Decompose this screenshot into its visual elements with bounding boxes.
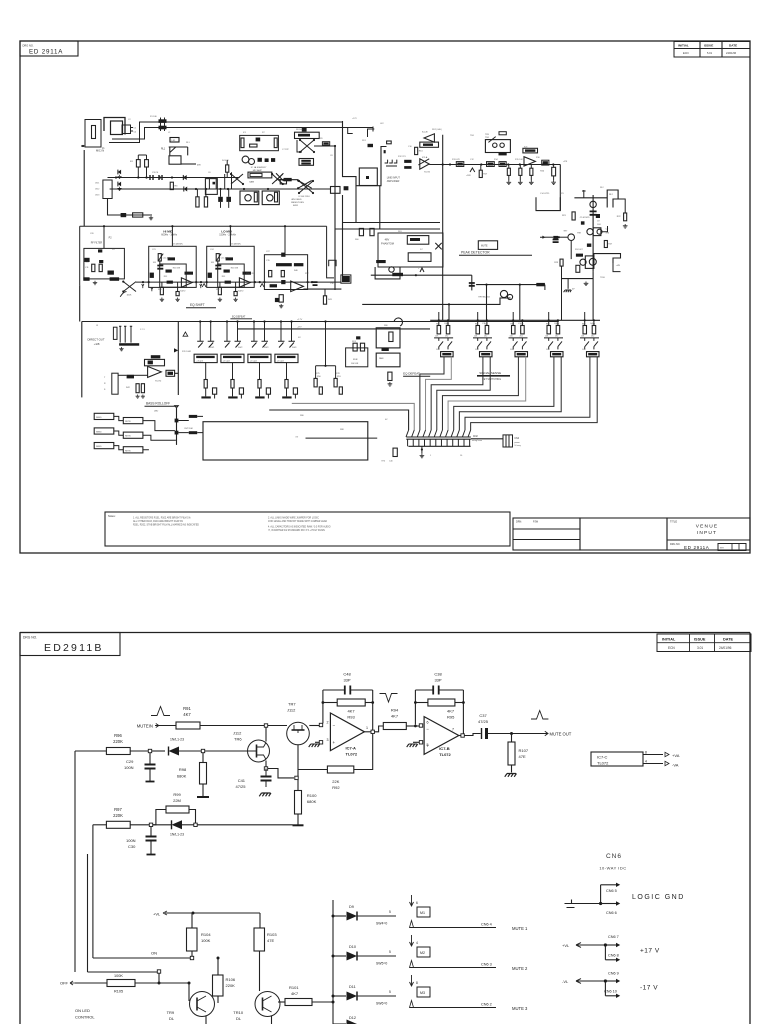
resistor R25 below bus: [196, 197, 199, 207]
input resistor R12 dark: [404, 166, 411, 169]
riser rail to LO MID: [229, 226, 231, 246]
EQ HI MID resistor below: [160, 287, 163, 294]
svg-text:R98: R98: [179, 767, 187, 772]
svg-text:D9: D9: [349, 905, 354, 909]
R25 R26 leads: [197, 189, 206, 197]
IC7-C pin 4 wire: [643, 763, 663, 765]
svg-text:6: 6: [427, 721, 429, 725]
detector input cap marks: [553, 240, 559, 243]
fader slider 2: [360, 343, 364, 351]
svg-text:ISSUE: ISSUE: [694, 637, 706, 641]
diode D4 on cold bus: [184, 186, 187, 191]
resistor R2: [145, 160, 149, 167]
svg-text:C48: C48: [343, 672, 351, 677]
svg-text:4K7: 4K7: [183, 712, 191, 717]
switch group 1 label box: [194, 354, 217, 362]
-VL arrow wire: [576, 979, 605, 984]
feedback left vertical B: [414, 690, 416, 725]
ribbon box R3: [123, 447, 143, 453]
svg-text:TL072: TL072: [346, 752, 358, 757]
right group 3 link: [509, 337, 528, 339]
svg-text:M2: M2: [420, 951, 425, 955]
R41 lead: [324, 289, 326, 296]
svg-text:TL072: TL072: [439, 752, 451, 757]
svg-text:J3: J3: [96, 325, 99, 327]
svg-text:+ch gnd: +ch gnd: [277, 361, 284, 363]
C48 wire left: [323, 689, 345, 691]
svg-text:RETN: RETN: [125, 450, 131, 452]
svg-text:R53: R53: [164, 276, 167, 278]
ribbon box L1: [94, 413, 114, 419]
fan wire 6: [448, 357, 526, 430]
svg-text:OFF: OFF: [60, 981, 69, 986]
R28 ground: [529, 181, 534, 185]
svg-text:0V: 0V: [296, 436, 299, 438]
svg-text:INPUT: INPUT: [697, 530, 717, 536]
feedback box U1: [295, 132, 320, 138]
resistor R6 dark: [322, 142, 329, 145]
CN6 pin7 stub: [605, 944, 616, 946]
svg-text:8: 8: [645, 750, 647, 754]
wire D9 out: [357, 915, 396, 917]
svg-text:47/25: 47/25: [478, 719, 489, 724]
svg-text:CN6 10: CN6 10: [604, 990, 617, 994]
switch group 4 drops: [281, 322, 292, 342]
svg-text:R9: R9: [320, 138, 323, 140]
OVERLOAD SENSE underline: [477, 375, 510, 377]
svg-text:MUTE 3: MUTE 3: [512, 1006, 528, 1011]
svg-text:2K2: 2K2: [484, 336, 487, 338]
svg-text:IC1: IC1: [243, 132, 247, 134]
svg-text:TR7: TR7: [563, 231, 568, 233]
line input box: [359, 168, 377, 186]
switch group 1 gnd lead: [205, 388, 207, 396]
svg-text:-VL: -VL: [562, 979, 569, 984]
svg-text:R95: R95: [447, 715, 455, 720]
riser rail to treble: [284, 226, 286, 255]
ground under filter: [93, 281, 97, 285]
svg-text:TITLE: TITLE: [670, 520, 677, 524]
led junction 1: [175, 419, 179, 423]
filter resistor Rf2: [99, 264, 102, 271]
preamp resistor Rc: [250, 144, 257, 147]
svg-text:CN 3: CN 3: [95, 195, 99, 197]
wire left bus to R96: [75, 750, 106, 752]
CN6 pin6 stub: [601, 903, 616, 905]
EQ HI MID op-amp: [181, 278, 192, 287]
svg-text:5.01: 5.01: [707, 51, 713, 55]
led wires: [178, 416, 203, 432]
right group 1 box bar: [442, 353, 451, 355]
R100 top lead: [297, 780, 299, 791]
lambda marker on bus: [470, 168, 475, 172]
svg-text:RV2 10K: RV2 10K: [185, 428, 194, 430]
fan wire 7: [454, 357, 554, 430]
svg-text:C1: C1: [134, 128, 138, 130]
switch group 1 gnd bar: [201, 396, 210, 398]
test point lambda 3: [183, 332, 188, 336]
treble block box: [264, 255, 307, 290]
svg-text:100K: 100K: [201, 938, 211, 943]
svg-text:EQ DEFEAT: EQ DEFEAT: [232, 316, 246, 319]
lower routing box: [203, 422, 368, 460]
pin6 terminal: [419, 724, 422, 727]
capacitor C30: [146, 837, 157, 841]
R20 leads: [553, 165, 555, 168]
op-amp IC7-A: [330, 713, 364, 751]
svg-text:100N: 100N: [126, 838, 136, 843]
svg-text:P2: P2: [109, 237, 113, 240]
svg-text:R12 221: R12 221: [398, 156, 406, 158]
svg-text:CN6 8: CN6 8: [608, 954, 619, 958]
svg-text:4: 4: [416, 941, 418, 945]
resistor R95: [428, 699, 455, 706]
capacitor C38: [433, 686, 439, 695]
detector mid box: [593, 228, 601, 236]
svg-text:R104: R104: [201, 932, 211, 937]
TR6 source lead: [265, 761, 267, 769]
switch group 4 label bar: [277, 356, 296, 358]
lower det resistor: [576, 265, 580, 272]
svg-text:EQ DEFEAT: EQ DEFEAT: [403, 372, 420, 376]
U5 feedback resistor: [525, 149, 535, 151]
XLR connector J2: [103, 180, 112, 199]
node fb junction A: [322, 701, 325, 704]
detector transistor TR6b: [597, 229, 602, 234]
svg-text:10K: 10K: [510, 336, 514, 338]
cap C17 dark: [469, 283, 475, 286]
cross fader X2: [123, 282, 136, 292]
R20 ground: [551, 180, 556, 184]
J2 bottom wire: [108, 199, 153, 216]
small box top right: [387, 141, 392, 144]
svg-text:100K: 100K: [114, 974, 123, 978]
svg-text:CN6 7: CN6 7: [608, 935, 619, 939]
resistor R92: [327, 766, 353, 773]
node C29: [148, 749, 151, 752]
switch group 3 gnd bar: [255, 396, 264, 398]
svg-text:DL: DL: [236, 1016, 242, 1021]
row2 outer top wire: [80, 225, 327, 227]
svg-text:D10: D10: [349, 945, 356, 949]
svg-text:R41: R41: [328, 299, 333, 301]
op-amp U3 (left facing): [424, 134, 434, 142]
resistor R10 vertical: [415, 147, 418, 154]
preamp resistor Rb: [274, 138, 277, 148]
EQ DEFEAT underline: [403, 375, 430, 377]
R42 ground: [136, 395, 140, 399]
EQ LO MID cap dark corner: [208, 273, 212, 278]
XLR J1 stub: [81, 145, 85, 147]
jack bottom bar: [119, 343, 139, 346]
svg-text:R107: R107: [519, 748, 529, 753]
right group 5 resistor a: [583, 326, 587, 334]
D11 row wire: [410, 1007, 497, 1009]
svg-text:R51 6K8: R51 6K8: [173, 268, 180, 270]
feedback left vertical A: [322, 690, 324, 723]
fan wire left 2 (grey): [292, 403, 414, 430]
riser wires to bus: [209, 172, 231, 189]
svg-text:4K7: 4K7: [447, 709, 455, 714]
svg-text:3: 3: [327, 738, 329, 742]
EQ LO MID op-amp: [239, 278, 250, 287]
staircase wires right: [348, 127, 375, 138]
cross switch U2: [299, 181, 313, 193]
CN6 7-8 vertical: [604, 945, 606, 960]
resistor R98: [200, 763, 207, 785]
svg-text:1. ALL RESISTORS R101, R102 A: 1. ALL RESISTORS R101, R102 ARE BRIGHT F…: [133, 517, 191, 520]
riser peak detector to bus: [592, 272, 594, 321]
right group 4 resistor b: [556, 326, 560, 334]
svg-text:1: 1: [366, 726, 368, 730]
svg-text:+: +: [333, 740, 336, 745]
mic preamp box: [240, 135, 279, 150]
svg-text:15 dB B/C: 15 dB B/C: [173, 243, 183, 245]
headroom box corner: [536, 197, 560, 210]
svg-text:ED 2911A: ED 2911A: [684, 545, 710, 550]
right group 2 riser: [477, 312, 479, 326]
right group 3 resistor a: [512, 326, 516, 334]
svg-text:22M: 22M: [173, 798, 181, 803]
svg-text:IC1-B 2134: IC1-B 2134: [298, 196, 310, 198]
EQ LO MID bus resistor dark: [225, 281, 231, 284]
svg-text:+VL: +VL: [153, 912, 161, 917]
mid vertical drop: [471, 275, 473, 290]
svg-text:R: R: [104, 383, 106, 385]
detector ground 1: [584, 282, 589, 286]
connector bracket marks: [385, 160, 397, 166]
wire R91 to TR7: [200, 725, 287, 727]
phantom resistor v2: [370, 228, 374, 235]
left bus vertical 2: [92, 825, 94, 958]
svg-text:+17V: +17V: [352, 118, 357, 120]
svg-text:RL2: RL2: [600, 187, 605, 189]
preamp flat box inner: [250, 173, 262, 176]
node TR7 source: [295, 776, 298, 779]
treble resistor v2: [269, 271, 272, 277]
svg-text:100K: 100K: [127, 295, 132, 297]
left bus vertical 1: [74, 751, 76, 972]
preamp transistor TR2: [249, 159, 255, 165]
svg-text:SW4: SW4: [292, 347, 297, 349]
TR9 internal leads: [197, 996, 206, 1012]
svg-text:ON: ON: [151, 951, 157, 956]
svg-text:RL1: RL1: [161, 149, 166, 151]
svg-text:C6: C6: [208, 172, 211, 174]
svg-text:SEND: SEND: [96, 432, 102, 434]
svg-text:1: 1: [430, 455, 432, 457]
wire bus2 to R97: [93, 824, 107, 826]
right group 2 label box: [480, 352, 493, 357]
wire node to D7: [152, 750, 165, 752]
detector input resistor dark: [553, 236, 558, 239]
svg-text:CONTROL: CONTROL: [75, 1015, 95, 1020]
switch group 3 drops: [254, 322, 265, 342]
cold signal bus: [110, 188, 330, 190]
svg-text:TR4: TR4: [485, 137, 490, 139]
svg-text:MIC AMP: MIC AMP: [253, 169, 263, 172]
svg-text:C21: C21: [152, 249, 157, 251]
R18 lead: [508, 165, 510, 169]
R100 end bar: [293, 824, 304, 826]
svg-text:TR3: TR3: [485, 134, 490, 136]
svg-text:4K7: 4K7: [391, 714, 399, 719]
svg-text:R50 12K: R50 12K: [246, 273, 254, 275]
svg-text:+17 V: +17 V: [640, 948, 660, 955]
C29 bottom lead: [149, 769, 151, 782]
svg-text:C29: C29: [126, 759, 134, 764]
svg-text:C2: C2: [134, 131, 138, 133]
node R104 top: [192, 912, 195, 915]
pin5 terminal: [419, 741, 422, 744]
line input box dot: [366, 176, 369, 179]
CN6 pin9 stub: [605, 980, 616, 982]
svg-text:RETN: RETN: [125, 436, 131, 438]
dark resistor on stub: [284, 178, 292, 181]
wire output to R94: [374, 726, 383, 732]
switch group 2 switches: [224, 341, 241, 347]
D10 open triangle: [410, 961, 414, 968]
resistor R93: [337, 699, 365, 706]
svg-text:BASS ROLLOFF: BASS ROLLOFF: [146, 402, 170, 406]
input loop inner box: [111, 121, 123, 135]
mid resistor pair 2 a: [334, 378, 337, 387]
row2 outer left wire: [79, 226, 81, 285]
svg-text:L2: L2: [168, 132, 171, 134]
svg-text:RV1: RV1: [362, 140, 367, 142]
TR9 emitter lead: [205, 1016, 207, 1024]
cap C5 dark: [581, 221, 585, 224]
wire to C37: [464, 734, 480, 736]
pad ticks: [131, 128, 134, 132]
svg-text:J1: J1: [102, 147, 105, 150]
svg-text:RL1: RL1: [186, 142, 191, 144]
diamond switch on bus 1: [231, 174, 243, 184]
pin2 terminal: [319, 723, 322, 726]
svg-text:48V FEED: 48V FEED: [291, 199, 302, 201]
bus junction dots: [115, 176, 117, 178]
detector dark mark 2: [587, 244, 591, 247]
svg-text:RF FILTER: RF FILTER: [91, 243, 103, 245]
component box R2b: [133, 213, 143, 217]
direct out jack: [113, 327, 117, 339]
+VA arrow: [665, 752, 669, 756]
right group 3 label box: [515, 352, 528, 357]
R101 wires: [278, 1001, 285, 1003]
IC7-A output terminal: [371, 730, 374, 733]
led resistor dark 1: [189, 415, 197, 418]
EQ HI MID resistor below2: [176, 292, 179, 296]
U3 feedback box: [420, 142, 439, 147]
switch group 4 switches: [278, 341, 295, 347]
D9 arrow down: [410, 895, 414, 906]
R103 bottom lead: [259, 951, 261, 991]
diode D1 ground: [117, 175, 121, 179]
svg-text:CN2: CN2: [473, 435, 478, 438]
wire R94 to pin6: [406, 725, 419, 727]
mute box M2: [417, 947, 430, 957]
D9 row wire: [410, 927, 497, 929]
C41 ground: [259, 793, 271, 796]
switch logic box: [375, 267, 400, 279]
aux resistor dark: [382, 348, 389, 351]
svg-text:10K: 10K: [153, 262, 157, 264]
EQ LO MID resistor below2: [234, 292, 237, 296]
EQ LO MID dark comp: [224, 270, 230, 273]
wire D8 row to R100: [197, 824, 292, 826]
svg-text:LOGIC GND: LOGIC GND: [632, 894, 685, 901]
svg-text:CN6 4: CN6 4: [481, 923, 492, 927]
CN4 inner bars: [506, 435, 509, 447]
R99 loop right: [189, 810, 196, 825]
stacked resistor R7: [301, 160, 311, 162]
svg-text:R75: R75: [316, 373, 321, 375]
svg-text:-17 V: -17 V: [640, 985, 658, 992]
resistor R96: [106, 748, 130, 755]
resistor R103: [254, 928, 265, 951]
svg-text:2K2: 2K2: [445, 336, 448, 338]
R17 lead: [480, 165, 482, 171]
svg-text:S: S: [104, 389, 106, 391]
ribbon box R1: [123, 418, 143, 424]
page 2 revision table: [657, 634, 751, 652]
mid wire: [371, 274, 472, 276]
svg-text:24/01/96: 24/01/96: [726, 51, 737, 55]
fan wire 1: [420, 357, 444, 430]
phantom feed transistor a: [245, 195, 251, 201]
svg-text:33P: 33P: [434, 678, 441, 683]
fan wire 2: [426, 357, 452, 430]
op-amp U5: [524, 157, 535, 166]
detector ground 2: [564, 290, 572, 292]
CN2 connector strip: [406, 437, 471, 439]
detector transistor TR6a: [587, 229, 593, 235]
resistor R16 on bus: [542, 160, 549, 165]
svg-text:TL072: TL072: [155, 381, 162, 383]
input resistor R11 dark: [404, 160, 411, 163]
pin5 wire: [413, 741, 419, 743]
node mid wire: [415, 274, 417, 276]
treble cap dark: [281, 253, 285, 257]
TR10 emitter lead: [271, 1016, 273, 1024]
CN2 to CN4 wire: [471, 438, 503, 440]
resistor R18 vertical: [507, 168, 510, 175]
preamp trim marks: [258, 158, 262, 162]
phantom cross X: [435, 243, 441, 250]
svg-text:ECN: ECN: [683, 51, 689, 55]
svg-text:10K: 10K: [475, 349, 479, 351]
switch group 4 gnd bar: [282, 396, 291, 398]
wire C37 to node: [488, 733, 544, 735]
resistor R100: [295, 791, 302, 815]
switch group 2 label bar: [223, 356, 242, 358]
C30 end bar: [147, 854, 156, 856]
svg-text:2: 2: [327, 721, 329, 725]
mid pair riser: [325, 322, 327, 366]
resistor R107: [508, 742, 515, 765]
svg-text:C3 C4: C3 C4: [152, 172, 159, 174]
sheet box divider: [732, 544, 739, 551]
svg-text:FET SWITCHING: FET SWITCHING: [482, 378, 501, 381]
hook wires mid: [327, 226, 337, 278]
EQ HI MID lambda mark: [202, 284, 206, 287]
inner wire in box: [306, 437, 378, 439]
svg-text:+ch gnd: +ch gnd: [250, 361, 257, 363]
svg-text:0V: 0V: [572, 289, 575, 291]
EQ LO MID ground below: [218, 298, 222, 302]
right group 5 switch: [585, 338, 598, 350]
svg-text:R106: R106: [226, 977, 236, 982]
